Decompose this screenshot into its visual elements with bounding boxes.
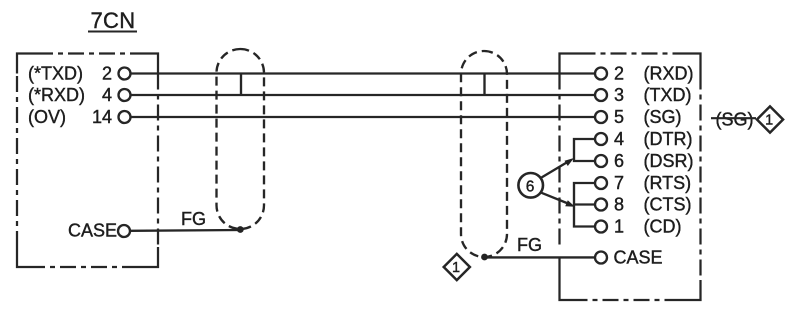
svg-text:2: 2 <box>102 63 112 83</box>
svg-text:FG: FG <box>181 209 206 229</box>
callout diamond 1 bottom <box>444 254 470 280</box>
twisted pair tick 2 <box>483 75 485 96</box>
twisted pair tick 1 <box>240 75 242 96</box>
svg-text:1: 1 <box>452 260 460 276</box>
svg-text:6: 6 <box>614 151 624 171</box>
pin 8 (CTS) circle <box>595 199 607 211</box>
svg-text:2: 2 <box>614 63 624 83</box>
svg-text:CASE: CASE <box>68 221 117 241</box>
svg-text:4: 4 <box>102 85 112 105</box>
pin 3 (TXD) label <box>614 85 692 105</box>
pin 8 (CTS) label <box>614 194 692 214</box>
label 7CN <box>88 8 137 33</box>
connector D-sub box <box>560 54 701 301</box>
svg-text:(DTR): (DTR) <box>644 129 693 149</box>
pin 14 (OV) circle <box>119 111 131 123</box>
svg-text:(TXD): (TXD) <box>644 85 692 105</box>
svg-text:FG: FG <box>517 235 542 255</box>
svg-text:1: 1 <box>614 216 624 236</box>
svg-text:4: 4 <box>614 129 624 149</box>
pin 5 (SG) circle <box>595 111 607 123</box>
svg-text:(SG): (SG) <box>644 107 682 127</box>
callout circle 6 <box>518 173 543 198</box>
svg-text:3: 3 <box>614 85 624 105</box>
jumper bracket pins 4-6 <box>574 139 595 161</box>
svg-text:(*TXD): (*TXD) <box>28 63 83 83</box>
pin 14 (OV) label <box>28 107 112 127</box>
jumper bracket pins 7-8-1 <box>574 183 595 227</box>
svg-text:(CTS): (CTS) <box>644 194 692 214</box>
svg-text:(SG): (SG) <box>716 109 754 129</box>
pin 4 (DTR) circle <box>595 133 607 145</box>
pin 6 (DSR) label <box>614 151 694 171</box>
pin 6 (DSR) circle <box>595 155 607 167</box>
callout (SG) strikethrough <box>711 109 756 129</box>
arrow to bracket 4-6 <box>542 158 575 178</box>
pin 2 (*TXD) circle <box>119 68 131 80</box>
pin CASE left circle <box>118 225 130 237</box>
svg-text:8: 8 <box>614 194 624 214</box>
pin 4 (*RXD) label <box>28 85 112 105</box>
junction dot FG left <box>237 226 244 233</box>
pin 4 (*RXD) circle <box>119 89 131 101</box>
cable shield 1 <box>217 49 265 229</box>
svg-text:(DSR): (DSR) <box>644 151 694 171</box>
arrow to bracket 7-8-1 <box>542 193 576 207</box>
svg-text:(CD): (CD) <box>644 216 682 236</box>
svg-text:1: 1 <box>765 113 773 129</box>
pin 2 (RXD) label <box>614 63 694 83</box>
pin 4 (DTR) label <box>614 129 692 149</box>
svg-text:6: 6 <box>526 178 535 195</box>
svg-text:5: 5 <box>614 107 624 127</box>
svg-text:7: 7 <box>614 173 624 193</box>
pin 3 (TXD) circle <box>595 89 607 101</box>
cable shield 2 <box>461 51 507 257</box>
junction dot FG right <box>481 254 488 261</box>
svg-text:CASE: CASE <box>614 247 663 267</box>
svg-text:(*RXD): (*RXD) <box>28 85 85 105</box>
svg-text:7CN: 7CN <box>91 8 136 33</box>
pin 2 (*TXD) label <box>28 63 112 83</box>
pin 1 (CD) circle <box>595 221 607 233</box>
wire FG right <box>484 256 595 258</box>
pin 2 (RXD) circle <box>595 68 607 80</box>
pin 5 (SG) label <box>614 107 682 127</box>
callout diamond 1 right <box>757 106 783 132</box>
svg-text:(OV): (OV) <box>28 107 66 127</box>
svg-text:(RTS): (RTS) <box>644 173 692 193</box>
wire SG (row 3) <box>131 116 596 118</box>
pin 7 (RTS) circle <box>595 177 607 189</box>
wire FG left <box>130 229 241 232</box>
connector 7CN box <box>17 54 158 268</box>
pin CASE right circle <box>595 252 607 264</box>
pin 1 (CD) label <box>614 216 682 236</box>
wire RXD (row 2) <box>131 94 596 96</box>
svg-text:(RXD): (RXD) <box>644 63 694 83</box>
pin 7 (RTS) label <box>614 173 691 193</box>
wire TXD (row 1) <box>131 72 596 74</box>
svg-text:14: 14 <box>92 107 112 127</box>
